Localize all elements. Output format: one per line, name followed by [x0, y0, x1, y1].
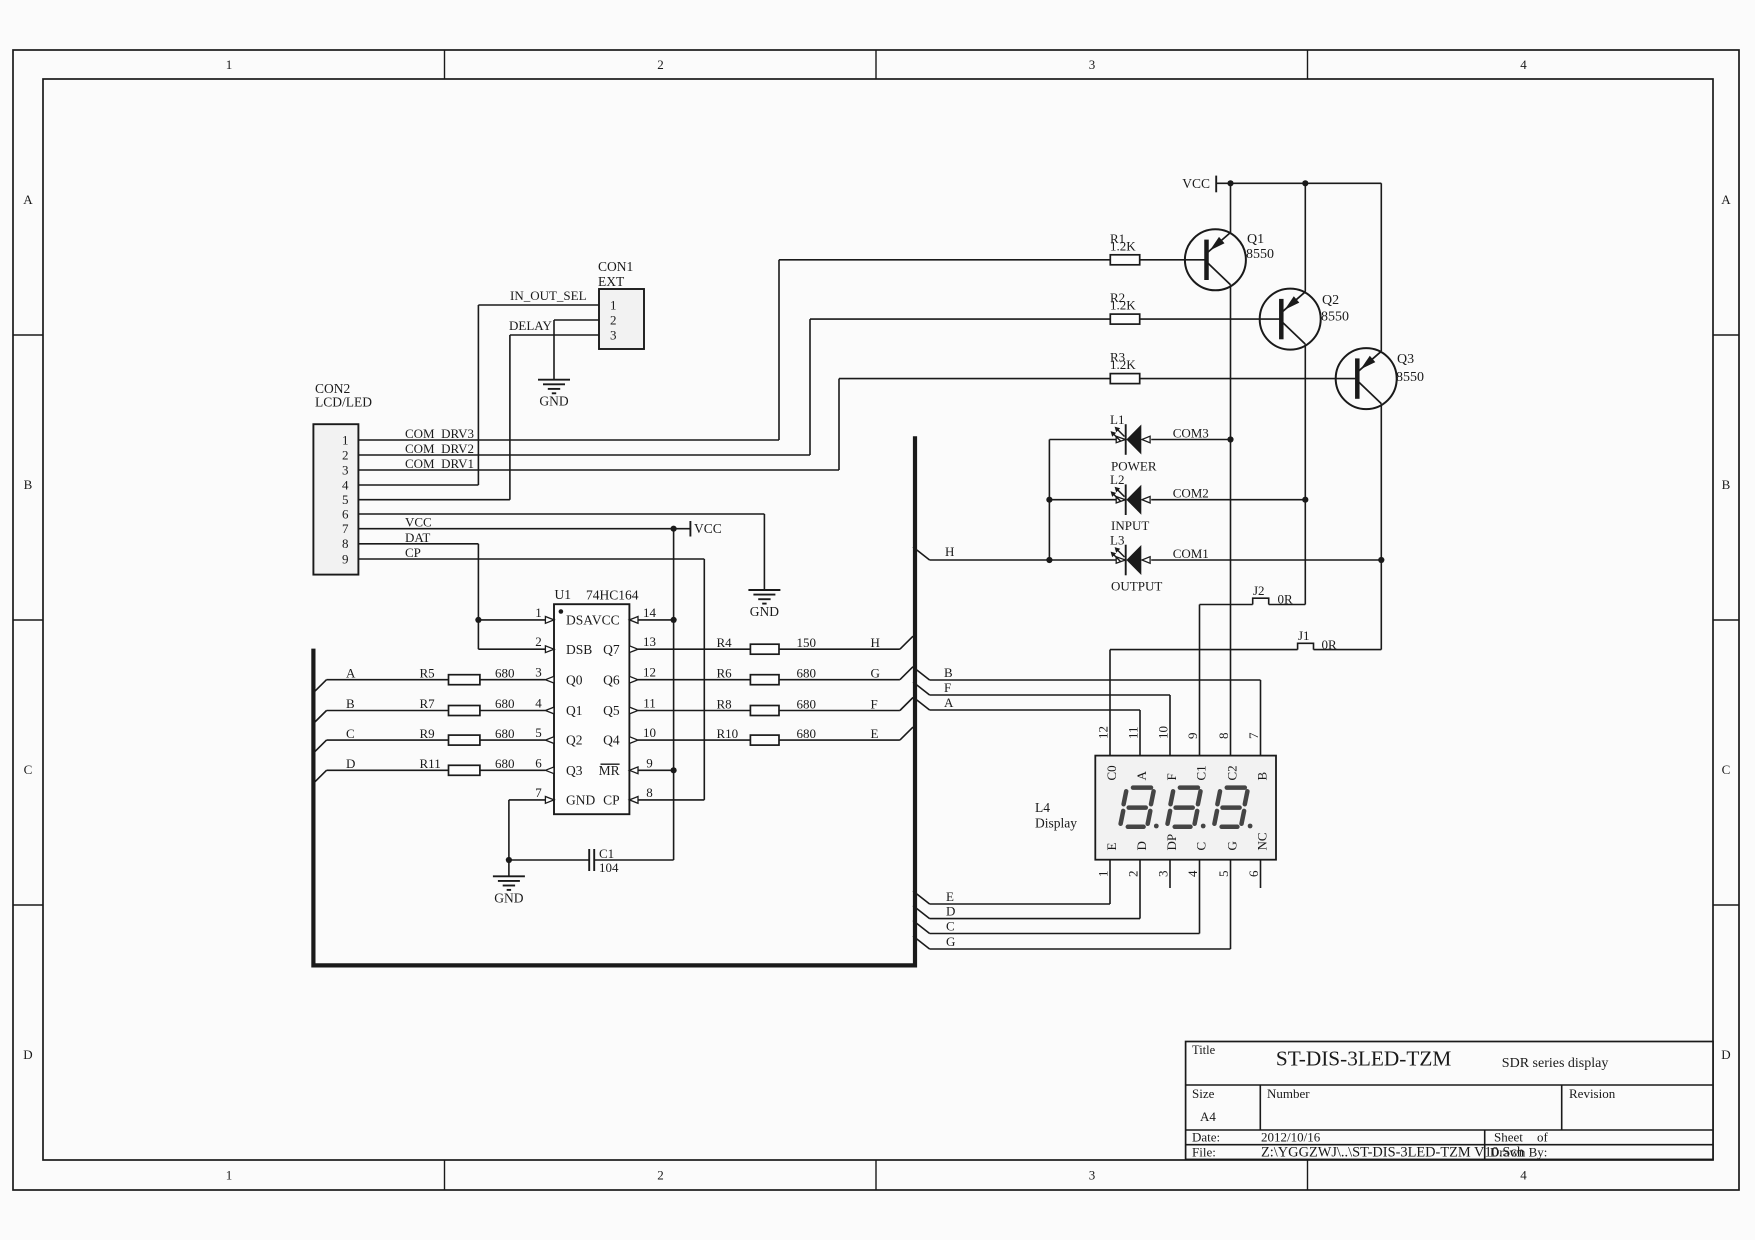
svg-text:NC: NC	[1255, 832, 1270, 850]
svg-text:4: 4	[1520, 57, 1527, 72]
svg-text:4: 4	[535, 696, 542, 711]
svg-text:680: 680	[495, 665, 515, 680]
svg-text:7: 7	[1246, 732, 1261, 739]
wire display pin1 E	[1109, 860, 1111, 904]
svg-text:3: 3	[1089, 57, 1096, 72]
wire COM_DRV1 to R3 to Q3 base	[839, 378, 1110, 380]
svg-text:5: 5	[1216, 871, 1231, 878]
jumper J1 0R	[1110, 649, 1298, 651]
svg-text:3: 3	[1156, 871, 1171, 878]
svg-text:9: 9	[342, 551, 349, 566]
svg-text:9: 9	[1185, 733, 1200, 740]
capacitor C1 104	[509, 859, 589, 861]
svg-text:11: 11	[643, 696, 656, 711]
svg-text:4: 4	[342, 477, 349, 492]
resistor R2 1.2K	[1110, 314, 1139, 324]
svg-text:14: 14	[643, 605, 657, 620]
svg-text:H: H	[945, 544, 954, 559]
svg-text:R6: R6	[717, 666, 733, 681]
svg-text:8550: 8550	[1246, 247, 1274, 262]
wire U1.7 GND	[509, 799, 546, 801]
svg-text:B: B	[1722, 477, 1731, 492]
svg-text:12: 12	[1096, 726, 1111, 739]
svg-text:C: C	[24, 762, 33, 777]
svg-text:OUTPUT: OUTPUT	[1111, 579, 1162, 594]
resistor R5 680 on net A	[313, 680, 326, 693]
wire CON1.2 to GND	[554, 319, 599, 321]
svg-text:8550: 8550	[1321, 310, 1349, 325]
svg-text:C2: C2	[1225, 765, 1240, 780]
wire CON2.4 IN_OUT_SEL	[358, 484, 478, 486]
resistor R7 680 on net B	[313, 711, 326, 724]
svg-text:ST-DIS-3LED-TZM: ST-DIS-3LED-TZM	[1276, 1047, 1452, 1071]
wire display pin6 NC stub	[1260, 860, 1262, 888]
svg-text:C1: C1	[599, 846, 614, 861]
svg-text:A: A	[346, 665, 356, 680]
wire COM_DRV2 CON2.2	[358, 454, 810, 456]
power VCC port	[689, 521, 691, 537]
svg-text:5: 5	[342, 492, 349, 507]
svg-text:VCC: VCC	[592, 613, 620, 628]
svg-text:6: 6	[535, 755, 542, 770]
svg-text:104: 104	[599, 860, 619, 875]
wire CP CON2.9	[358, 558, 704, 560]
svg-text:LCD/LED: LCD/LED	[315, 395, 372, 410]
svg-text:2: 2	[1126, 871, 1141, 878]
svg-text:COM2: COM2	[1173, 486, 1209, 501]
svg-text:Q2: Q2	[1322, 293, 1339, 308]
svg-text:3: 3	[342, 462, 349, 477]
svg-text:GND: GND	[494, 890, 523, 905]
wire COM_DRV2 to R2 to Q2 base	[810, 318, 1110, 320]
led L1 POWER	[1125, 424, 1127, 455]
7-segment digits 8.8.8.	[1121, 788, 1154, 827]
resistor R8 680 on net F	[638, 710, 750, 712]
svg-text:R11: R11	[420, 756, 441, 771]
svg-text:Q6: Q6	[603, 672, 620, 687]
wire CON2.6 to GND	[358, 513, 764, 515]
svg-text:COM3: COM3	[1173, 426, 1209, 441]
resistor R11 680 on net D	[313, 770, 326, 783]
svg-text:G: G	[946, 934, 955, 949]
wire DAT to U1 pins 1-2	[478, 619, 545, 621]
ground GND near CON1	[538, 379, 570, 381]
svg-text:680: 680	[797, 726, 817, 741]
svg-text:GND: GND	[566, 793, 595, 808]
svg-text:4: 4	[1520, 1168, 1527, 1183]
wire VCC CON2.7	[358, 528, 690, 530]
connector CON2 LCD/LED	[313, 424, 358, 574]
svg-text:9: 9	[646, 755, 653, 770]
svg-text:Q1: Q1	[566, 703, 583, 718]
svg-text:Q0: Q0	[566, 672, 583, 687]
svg-text:DSA: DSA	[566, 613, 593, 628]
svg-text:Display: Display	[1035, 816, 1077, 831]
wire IN_OUT_SEL CON1.1	[478, 304, 599, 306]
svg-text:680: 680	[797, 666, 817, 681]
svg-text:R10: R10	[717, 726, 739, 741]
svg-text:C: C	[1194, 842, 1209, 851]
svg-text:H: H	[871, 635, 880, 650]
svg-text:1.2K: 1.2K	[1110, 238, 1136, 253]
svg-text:3: 3	[535, 665, 542, 680]
svg-text:Q1: Q1	[1247, 232, 1264, 247]
svg-text:R7: R7	[420, 696, 436, 711]
svg-text:A: A	[944, 695, 954, 710]
svg-text:DELAY: DELAY	[509, 318, 552, 333]
svg-text:B: B	[24, 477, 33, 492]
svg-text:GND: GND	[750, 604, 779, 619]
svg-text:2: 2	[342, 447, 349, 462]
svg-text:Size: Size	[1192, 1086, 1215, 1101]
svg-text:VCC: VCC	[694, 521, 722, 536]
svg-text:VCC: VCC	[1182, 176, 1210, 191]
svg-text:R5: R5	[420, 665, 435, 680]
svg-text:E: E	[1104, 843, 1119, 851]
bus ABCDEFGH left/bottom/right	[313, 436, 915, 965]
svg-text:C1: C1	[1194, 765, 1209, 780]
wire display pin10 F	[930, 694, 1170, 696]
svg-text:A: A	[1721, 192, 1731, 207]
svg-text:E: E	[946, 889, 954, 904]
wire CON2.5 DELAY	[358, 499, 510, 501]
svg-text:7: 7	[535, 785, 542, 800]
svg-text:DSB: DSB	[566, 642, 592, 657]
svg-text:680: 680	[495, 726, 515, 741]
svg-text:B: B	[346, 696, 355, 711]
svg-text:J1: J1	[1298, 628, 1310, 643]
svg-text:E: E	[871, 726, 879, 741]
svg-text:COM DRV1: COM DRV1	[405, 456, 474, 471]
svg-text:R4: R4	[717, 635, 733, 650]
svg-text:IN_OUT_SEL: IN_OUT_SEL	[510, 288, 587, 303]
svg-text:Z:\YGGZWJ\..\ST-DIS-3LED-TZM V: Z:\YGGZWJ\..\ST-DIS-3LED-TZM V10.Sch	[1261, 1144, 1524, 1160]
svg-text:0R: 0R	[1278, 592, 1294, 607]
resistor R9 680 on net C	[313, 740, 326, 753]
svg-text:2: 2	[657, 57, 664, 72]
led L2 INPUT	[1125, 484, 1127, 515]
resistor R1 1.2K	[1110, 255, 1139, 265]
svg-text:A4: A4	[1200, 1109, 1216, 1124]
wire display pin11 A	[930, 709, 1140, 711]
svg-text:1: 1	[226, 57, 233, 72]
wire COM_DRV3 CON2.1	[358, 439, 779, 441]
svg-text:DAT: DAT	[405, 530, 430, 545]
svg-text:POWER: POWER	[1111, 458, 1157, 473]
svg-text:U1: U1	[555, 587, 572, 602]
svg-text:INPUT: INPUT	[1111, 518, 1149, 533]
svg-text:0R: 0R	[1322, 637, 1338, 652]
wire COM_DRV1 CON2.3	[358, 469, 839, 471]
ground GND near CON2	[748, 589, 780, 591]
svg-text:F: F	[944, 680, 951, 695]
svg-text:Number: Number	[1267, 1086, 1310, 1101]
svg-text:1: 1	[342, 432, 349, 447]
overline on MR pin label	[601, 763, 620, 765]
wire COM2 net	[1049, 499, 1116, 501]
svg-text:13: 13	[643, 634, 656, 649]
svg-text:COM DRV3: COM DRV3	[405, 426, 474, 441]
svg-text:MR: MR	[599, 763, 620, 778]
svg-text:1: 1	[1096, 871, 1111, 878]
transistor Q3 8550 PNP	[1336, 348, 1397, 409]
title block	[1186, 1042, 1713, 1160]
svg-text:8550: 8550	[1396, 370, 1424, 385]
resistor R3 1.2K	[1110, 374, 1139, 384]
svg-text:1.2K: 1.2K	[1110, 298, 1136, 313]
svg-text:File:: File:	[1192, 1144, 1216, 1159]
ground GND near C1	[493, 875, 525, 877]
connector CON1 EXT	[599, 289, 644, 349]
svg-text:680: 680	[495, 696, 515, 711]
svg-text:C0: C0	[1104, 765, 1119, 780]
svg-text:Q2: Q2	[566, 733, 583, 748]
svg-text:680: 680	[495, 756, 515, 771]
svg-text:10: 10	[1156, 726, 1171, 739]
svg-text:L3: L3	[1110, 533, 1124, 548]
svg-text:10: 10	[643, 725, 656, 740]
svg-text:2: 2	[610, 313, 617, 328]
svg-text:2: 2	[535, 634, 542, 649]
wire COM_DRV3 to R1 to Q1 base	[779, 259, 1110, 261]
wire COM1 / H net	[913, 547, 930, 560]
wire display pin4 C	[1199, 860, 1201, 934]
svg-text:D: D	[1721, 1047, 1730, 1062]
svg-text:6: 6	[342, 506, 349, 521]
svg-text:A: A	[23, 192, 33, 207]
resistor R6 680 on net G	[638, 679, 750, 681]
display L4 3-digit 7-segment	[1095, 756, 1276, 860]
svg-text:L1: L1	[1110, 412, 1124, 427]
svg-text:COM DRV2: COM DRV2	[405, 441, 474, 456]
svg-text:D: D	[346, 756, 355, 771]
svg-text:Q5: Q5	[603, 703, 620, 718]
svg-text:74HC164: 74HC164	[586, 588, 639, 603]
svg-text:Title: Title	[1192, 1043, 1216, 1057]
svg-text:11: 11	[1126, 726, 1141, 739]
svg-text:8: 8	[646, 785, 653, 800]
svg-text:B: B	[944, 665, 953, 680]
svg-text:Q3: Q3	[566, 763, 583, 778]
svg-text:B: B	[1255, 772, 1270, 781]
ic U1 74HC164	[554, 604, 629, 814]
svg-text:VCC: VCC	[405, 515, 432, 530]
svg-text:A: A	[1134, 771, 1149, 781]
svg-text:Q4: Q4	[603, 733, 620, 748]
svg-text:GND: GND	[539, 394, 568, 409]
svg-text:5: 5	[535, 725, 542, 740]
svg-text:8: 8	[1216, 733, 1231, 740]
svg-text:L4: L4	[1035, 800, 1050, 815]
wire display pin3 DP stub	[1169, 860, 1171, 888]
wire CP to U1.8	[638, 799, 704, 801]
svg-text:Drawn By:: Drawn By:	[1490, 1144, 1547, 1159]
svg-text:D: D	[946, 903, 955, 918]
svg-text:DP: DP	[1164, 834, 1179, 851]
svg-text:J2: J2	[1253, 583, 1265, 598]
svg-text:1: 1	[535, 605, 542, 620]
svg-text:4: 4	[1185, 870, 1200, 877]
svg-text:680: 680	[797, 697, 817, 712]
svg-text:6: 6	[1246, 870, 1261, 877]
wire DAT CON2.8	[358, 543, 478, 545]
wire display pin2 D	[1139, 860, 1141, 919]
svg-text:C: C	[946, 918, 955, 933]
power VCC rail top	[1215, 176, 1217, 193]
svg-text:CP: CP	[405, 545, 421, 560]
svg-text:of: of	[1537, 1130, 1549, 1145]
svg-text:CP: CP	[603, 793, 620, 808]
svg-text:12: 12	[643, 665, 656, 680]
svg-text:F: F	[871, 697, 878, 712]
wire DELAY CON1.3	[510, 334, 599, 336]
svg-text:Date:: Date:	[1192, 1130, 1220, 1145]
svg-text:Q7: Q7	[603, 642, 620, 657]
svg-text:L2: L2	[1110, 472, 1124, 487]
wire VCC vertical to U1.14 and MR	[673, 529, 675, 860]
svg-text:7: 7	[342, 521, 349, 536]
wire COM3 net	[1049, 439, 1116, 441]
svg-text:3: 3	[610, 328, 617, 343]
svg-text:Sheet: Sheet	[1494, 1130, 1523, 1145]
svg-text:EXT: EXT	[598, 274, 625, 289]
svg-text:COM1: COM1	[1173, 546, 1209, 561]
svg-text:G: G	[1225, 841, 1240, 850]
wire display pin7 B	[930, 679, 1261, 681]
svg-text:3: 3	[1089, 1168, 1096, 1183]
svg-text:2012/10/16: 2012/10/16	[1261, 1130, 1321, 1145]
svg-text:R9: R9	[420, 726, 435, 741]
svg-text:1.2K: 1.2K	[1110, 357, 1136, 372]
svg-text:1: 1	[610, 298, 617, 313]
svg-text:2: 2	[657, 1168, 664, 1183]
svg-text:D: D	[23, 1047, 32, 1062]
svg-text:C: C	[1722, 762, 1731, 777]
transistor Q1 8550 PNP	[1185, 229, 1246, 290]
svg-text:F: F	[1164, 773, 1179, 780]
svg-text:G: G	[871, 666, 880, 681]
svg-text:R8: R8	[717, 697, 732, 712]
jumper J2 0R	[1200, 604, 1253, 606]
svg-text:D: D	[1134, 841, 1149, 850]
svg-text:1: 1	[226, 1168, 233, 1183]
led L3 OUTPUT	[1125, 545, 1127, 576]
resistor R10 680 on net E	[638, 739, 750, 741]
svg-text:CON1: CON1	[598, 259, 633, 274]
transistor Q2 8550 PNP	[1260, 289, 1321, 350]
svg-text:Q3: Q3	[1397, 352, 1414, 367]
wire display pin5 G	[1230, 860, 1232, 949]
svg-text:C: C	[346, 726, 355, 741]
svg-text:Revision: Revision	[1569, 1086, 1616, 1101]
svg-text:SDR series display: SDR series display	[1502, 1056, 1609, 1071]
resistor R4 150 on net H	[638, 648, 750, 650]
svg-text:8: 8	[342, 536, 349, 551]
wire LED common left vertical	[1048, 440, 1050, 561]
svg-text:150: 150	[797, 635, 817, 650]
